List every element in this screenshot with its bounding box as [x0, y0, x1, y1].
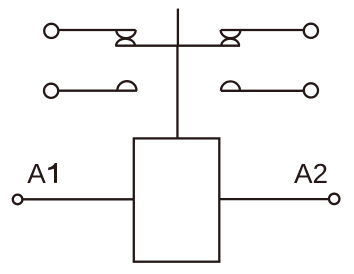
NO contact right: hump arc [221, 81, 240, 90]
wire: armature vertical link, upper segment [177, 9, 179, 46]
NC contact left: lower hump arc [116, 39, 135, 46]
wire: A1 terminal to coil [22, 198, 133, 200]
terminal circle NC right (row1 right) [304, 24, 318, 38]
terminal circle A1 [13, 195, 23, 205]
svg-text:A2: A2 [294, 158, 328, 189]
wire: NO contact to row2 right terminal [221, 90, 304, 92]
terminal circle A2 [329, 194, 339, 204]
NC contact right: lower hump arc [221, 39, 239, 46]
NC contact left: upper half-disc arc [116, 30, 135, 38]
NO contact left: hump arc [117, 81, 136, 91]
wire: NC contact top chord to row1 right terminal [221, 29, 304, 31]
NC contact right: upper half-disc arc [221, 30, 241, 38]
wire: armature vertical link to coil, lower segment [176, 46, 178, 139]
wire: coil to A2 terminal [219, 198, 329, 200]
wire: bottom chord across armature (row1) [115, 45, 240, 47]
terminal circle NC left (row1 left) [44, 24, 58, 38]
wire: row1 left terminal to NC contact top chord [59, 29, 136, 31]
coil K1 (operating coil box) [134, 138, 220, 261]
terminal circle NO left (row2 left) [44, 84, 58, 98]
terminal circle NO right (row2 right) [304, 83, 318, 97]
wire: row2 left terminal to NO contact [58, 90, 137, 92]
svg-text:A: A [27, 158, 46, 189]
